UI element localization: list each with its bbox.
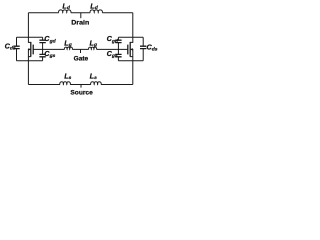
svg-text:Ld: Ld bbox=[62, 1, 70, 11]
wire bottom source rail bbox=[28, 84, 132, 86]
node Drain terminal bbox=[71, 13, 89, 27]
inductor Lg (left) bbox=[64, 38, 72, 49]
svg-text:Cds: Cds bbox=[147, 42, 158, 52]
svg-text:Cgd: Cgd bbox=[107, 34, 119, 44]
svg-text:Ls: Ls bbox=[90, 71, 97, 81]
svg-text:Lg: Lg bbox=[64, 38, 71, 48]
wire right block top (drain) bbox=[118, 36, 143, 38]
wire left block top (drain) bbox=[17, 36, 43, 38]
capacitor Cgs (right) bbox=[107, 49, 122, 59]
node Source terminal bbox=[70, 85, 93, 97]
svg-text:Cds: Cds bbox=[5, 41, 16, 51]
svg-text:Source: Source bbox=[70, 90, 93, 97]
inductor Lg (right) bbox=[89, 38, 97, 49]
wire left Cds branch bbox=[16, 37, 18, 61]
capacitor Cgd (right) bbox=[107, 34, 122, 44]
svg-text:Cgd: Cgd bbox=[44, 34, 56, 44]
wire top drain rail bbox=[28, 12, 132, 14]
capacitor Cgd (left) bbox=[39, 34, 56, 44]
capacitor Cds (left) bbox=[5, 41, 20, 51]
wire left riser (drain/gate/source stack) bbox=[42, 37, 44, 61]
capacitor Cds (right) bbox=[140, 42, 158, 52]
capacitor Cgs (left) bbox=[39, 49, 55, 59]
wire left block bottom (source) bbox=[17, 60, 43, 62]
svg-text:Lg: Lg bbox=[90, 38, 97, 48]
transistor Q2 (right MOSFET) bbox=[118, 13, 132, 85]
svg-text:Cgs: Cgs bbox=[44, 49, 55, 59]
svg-text:Ld: Ld bbox=[90, 1, 98, 11]
node Gate terminal bbox=[74, 49, 89, 62]
wire right riser (drain/gate/source stack) bbox=[117, 37, 119, 61]
svg-text:Ls: Ls bbox=[64, 71, 71, 81]
svg-text:Drain: Drain bbox=[71, 20, 89, 27]
inductor Ld (right) bbox=[90, 1, 102, 12]
wire middle gate rail bbox=[43, 48, 119, 50]
inductor Ld (left) bbox=[59, 1, 71, 12]
transistor Q1 (left MOSFET) bbox=[28, 13, 42, 85]
wire right block bottom (source) bbox=[118, 60, 143, 62]
inductor Ls (left) bbox=[60, 71, 72, 84]
wire right Cds branch bbox=[142, 37, 144, 61]
svg-text:Gate: Gate bbox=[74, 56, 89, 63]
inductor Ls (right) bbox=[90, 71, 102, 84]
svg-text:Cgs: Cgs bbox=[107, 49, 118, 59]
